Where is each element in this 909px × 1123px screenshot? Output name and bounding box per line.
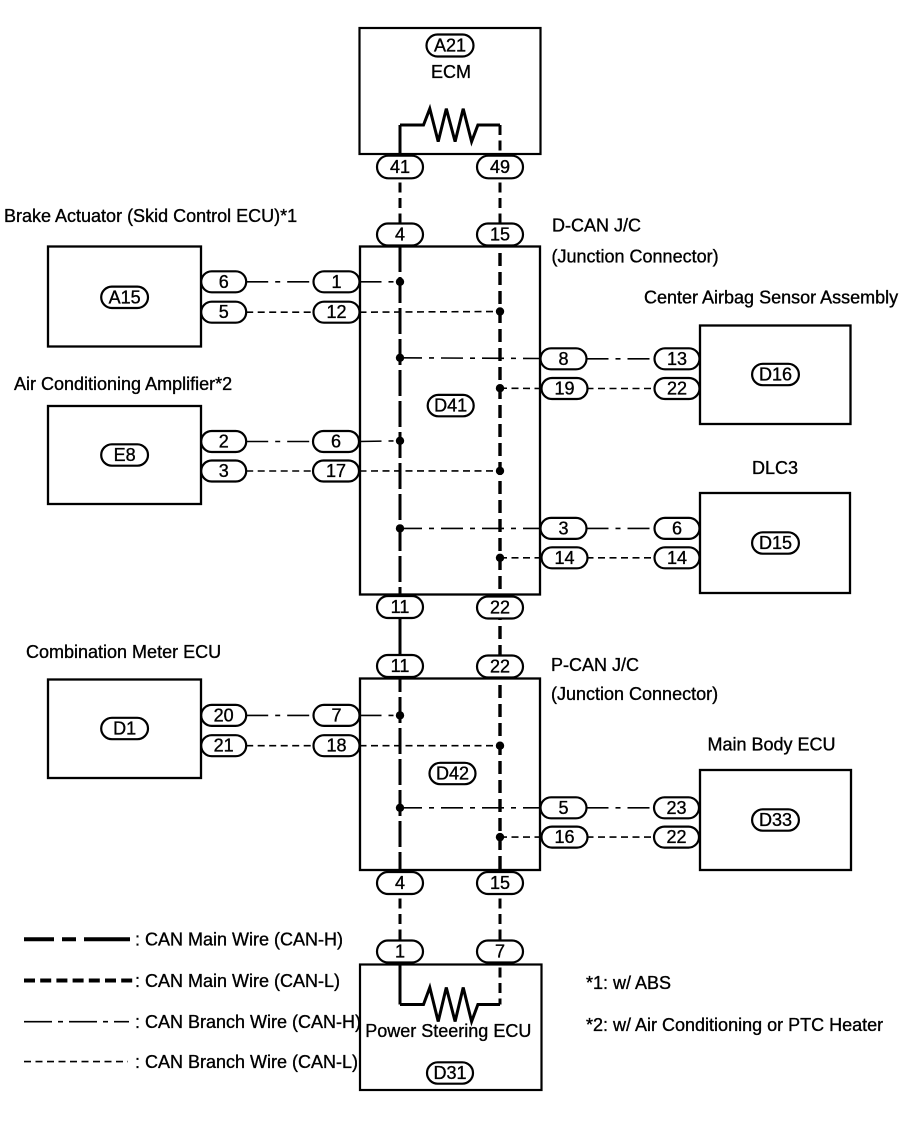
legend CAN Main Wire CAN-H sample line (24, 937, 130, 941)
wire branch CAN-H D41 pin3 to DLC3 pin6 (587, 527, 655, 529)
Center Airbag Sensor D16 box (700, 326, 851, 425)
svg-text:6: 6 (331, 432, 341, 452)
wire CAN-H main vertical D42 segment (399, 666, 402, 883)
wire PS ECU pin7 leg CAN-L (499, 952, 502, 1005)
wire branch CAN-L D42 pin18 to main line (360, 745, 501, 747)
node junction CAN-H at D41 pin8 row (396, 354, 404, 362)
wire CAN-H main vertical D41 segment (399, 246, 402, 607)
wire branch CAN-L main line to D41 pin14 (500, 557, 542, 559)
pin 4 D42 bottom (377, 872, 423, 894)
svg-text:ECM: ECM (431, 62, 471, 82)
svg-text:Power Steering ECU: Power Steering ECU (365, 1021, 531, 1041)
svg-text:DLC3: DLC3 (752, 458, 798, 478)
pin 5 A15 (201, 302, 246, 323)
connector D33 oval (752, 809, 799, 830)
svg-text:Air Conditioning Amplifier*2: Air Conditioning Amplifier*2 (14, 374, 232, 394)
svg-text:2: 2 (219, 432, 229, 452)
svg-text:A15: A15 (109, 287, 141, 307)
wire branch CAN-H D41 pin6 to main line (360, 440, 401, 443)
resistor in ECM (terminating resistor) (400, 109, 500, 142)
resistor in Power Steering ECU (terminating resistor) (400, 988, 500, 1022)
svg-text:*2: w/ Air Conditioning or PTC: *2: w/ Air Conditioning or PTC Heater (586, 1015, 883, 1035)
P-CAN junction connector D42 box (360, 679, 540, 871)
svg-text:18: 18 (326, 736, 346, 756)
connector D41 oval (428, 395, 474, 416)
connector D16 oval (752, 364, 799, 385)
pin 6 D41 left lower (313, 431, 359, 452)
D-CAN junction connector D41 box (360, 247, 540, 595)
node junction CAN-H at D41 pin6 row (396, 437, 404, 445)
node junction CAN-H at D41 pin3 row (396, 524, 404, 532)
pin 5 D42 right (541, 797, 587, 818)
wire branch CAN-H D41 pin1 to main line (360, 281, 401, 283)
wire branch CAN-H main line to D42 pin5 (400, 807, 541, 809)
svg-text:D31: D31 (433, 1063, 466, 1083)
pin 41 ECM (377, 156, 423, 179)
pin 20 D1 (201, 705, 246, 726)
svg-text:13: 13 (667, 349, 687, 369)
node junction CAN-H at D42 pin7 row (396, 711, 404, 719)
svg-text:D41: D41 (434, 396, 467, 416)
wire branch CAN-L main line to D42 pin16 (500, 836, 542, 838)
pin 22 D16 (655, 378, 700, 399)
pin 19 D41 right (542, 378, 588, 399)
svg-text:*1: w/ ABS: *1: w/ ABS (586, 973, 671, 993)
svg-text:41: 41 (390, 157, 410, 177)
wire branch CAN-H D42 pin7 to main line (360, 714, 401, 716)
svg-text:D16: D16 (759, 365, 792, 385)
pin 16 D42 right (542, 827, 588, 848)
wire branch CAN-H D1 pin20 to D42 pin7 (246, 714, 313, 716)
wire branch CAN-H main line to D41 pin3 (400, 527, 541, 529)
svg-text:23: 23 (666, 798, 686, 818)
pin 7 D42 left (314, 705, 360, 726)
svg-text:: CAN Main Wire (CAN-H): : CAN Main Wire (CAN-H) (135, 930, 343, 950)
svg-text:Brake Actuator (Skid Control E: Brake Actuator (Skid Control ECU)*1 (4, 206, 297, 226)
svg-text:E8: E8 (114, 445, 136, 465)
svg-text:15: 15 (490, 225, 510, 245)
wire CAN-L main vertical D42 segment (498, 666, 501, 883)
node junction CAN-L at D41 pin17 row (496, 467, 504, 475)
svg-text:21: 21 (214, 736, 234, 756)
svg-text:4: 4 (395, 225, 405, 245)
node junction CAN-H at D42 pin5 row (396, 804, 404, 812)
wire branch CAN-L D1 pin21 to D42 pin18 (246, 745, 313, 747)
wire D42 pin4 to PS ECU pin1 CAN-H (399, 883, 402, 952)
svg-text:(Junction Connector): (Junction Connector) (551, 684, 718, 704)
svg-text:11: 11 (391, 597, 410, 617)
svg-text:49: 49 (490, 157, 510, 177)
node junction CAN-L at D42 pin18 row (496, 742, 504, 750)
resistor in ECM left leg wire (399, 125, 402, 167)
svg-text:P-CAN J/C: P-CAN J/C (551, 655, 639, 675)
svg-text:D1: D1 (113, 719, 136, 739)
wire branch CAN-L D41 pin19 to D16 pin22 (587, 388, 655, 390)
pin 6 D15 (655, 518, 700, 539)
resistor in ECM right leg wire CAN-L (499, 125, 502, 167)
svg-text:22: 22 (666, 827, 686, 847)
svg-text:1: 1 (331, 272, 341, 292)
pin 14 D41 right lower (542, 547, 588, 568)
svg-text:5: 5 (219, 302, 229, 322)
svg-text:D33: D33 (759, 810, 792, 830)
node junction CAN-L at D42 pin16 row (496, 833, 504, 841)
svg-text:16: 16 (554, 827, 574, 847)
ECM box (360, 28, 541, 154)
svg-text:11: 11 (391, 656, 410, 676)
pin 7 Power Steering ECU (477, 941, 523, 963)
svg-text:6: 6 (219, 272, 229, 292)
svg-text:15: 15 (490, 873, 510, 893)
connector E8 oval (101, 444, 148, 465)
svg-text:5: 5 (558, 798, 568, 818)
svg-text:D-CAN J/C: D-CAN J/C (552, 216, 641, 236)
wire branch CAN-L D41 pin14 to DLC3 pin14 (587, 557, 655, 559)
wire CAN-H main between J/C 11 to 11 (399, 607, 402, 666)
svg-text:3: 3 (558, 518, 568, 538)
wire ECM pin49 to D41 pin15 CAN-L (499, 167, 502, 235)
svg-text:12: 12 (326, 302, 346, 322)
svg-text:7: 7 (331, 705, 341, 725)
svg-text:8: 8 (558, 349, 568, 369)
node junction CAN-H at D41 pin1 row (396, 278, 404, 286)
Combination Meter D1 box (48, 680, 201, 779)
pin 14 D15 (655, 547, 700, 568)
pin 2 E8 (201, 431, 246, 452)
pin 22 D41 bottom (477, 597, 523, 619)
svg-text:17: 17 (326, 461, 346, 481)
svg-text:4: 4 (395, 873, 405, 893)
wire branch CAN-L D41 pin17 to main line (360, 470, 501, 472)
Brake Actuator A15 box (48, 247, 201, 347)
pin 8 D41 right (541, 348, 587, 369)
svg-text:14: 14 (554, 548, 574, 568)
legend CAN Branch Wire CAN-H sample line (24, 1021, 129, 1023)
wire ECM pin41 to D41 pin4 CAN-H (399, 167, 402, 235)
connector A15 oval (101, 287, 148, 308)
pin 11 D41 bottom (377, 596, 423, 618)
wire branch CAN-L E8 pin3 to D41 pin17 (246, 470, 313, 472)
Air Conditioning Amplifier E8 box (48, 406, 201, 504)
svg-text:3: 3 (219, 461, 229, 481)
legend CAN Main Wire CAN-L sample line (24, 979, 132, 983)
svg-text:22: 22 (490, 598, 510, 618)
pin 13 D16 (655, 348, 700, 369)
connector D42 oval (430, 763, 476, 784)
svg-text:D42: D42 (436, 764, 469, 784)
svg-text:: CAN Main Wire (CAN-L): : CAN Main Wire (CAN-L) (135, 971, 340, 991)
wire branch CAN-L D41 pin12 to main line (360, 311, 501, 314)
svg-text:7: 7 (495, 942, 505, 962)
pin 23 D33 (654, 797, 699, 818)
svg-text:22: 22 (490, 657, 510, 677)
wire CAN-L main between J/C 22 to 22 (498, 607, 501, 666)
wire branch CAN-H D42 pin5 to D33 pin23 (587, 807, 655, 809)
svg-text:(Junction Connector): (Junction Connector) (552, 247, 719, 267)
node junction CAN-L at D41 pin12 row (496, 307, 504, 315)
wire branch CAN-H D41 pin8 to D16 pin13 (587, 358, 655, 360)
connector D15 oval (752, 532, 799, 553)
pin 3 D41 right lower (541, 518, 587, 539)
legend CAN Branch Wire CAN-L sample line (24, 1061, 128, 1063)
connector D31 oval (427, 1062, 473, 1083)
svg-text:22: 22 (667, 379, 687, 399)
svg-text:Main Body ECU: Main Body ECU (708, 735, 836, 755)
connector D1 oval (101, 718, 148, 739)
svg-text:20: 20 (214, 705, 234, 725)
wire branch CAN-L A15 pin5 to D41 pin12 (246, 311, 313, 313)
wire D42 pin15 to PS ECU pin7 CAN-L (499, 883, 502, 952)
pin 3 E8 (201, 461, 246, 482)
wire branch CAN-L D42 pin16 to D33 pin22 (587, 836, 655, 838)
wire branch CAN-H E8 pin2 to D41 pin6 (246, 441, 313, 443)
Main Body ECU D33 box (700, 770, 851, 870)
pin 21 D1 (201, 735, 246, 756)
pin 12 D41 left (314, 302, 360, 323)
wire branch CAN-L main line to D41 pin19 (500, 387, 542, 389)
Power Steering ECU box (360, 965, 542, 1091)
wire CAN-L main vertical D41 segment (498, 234, 501, 607)
DLC3 D15 box (700, 493, 850, 593)
wire PS ECU pin1 leg (399, 952, 402, 1005)
pin 18 D42 left (314, 735, 360, 756)
node junction CAN-L at D41 pin19 row (496, 384, 504, 392)
svg-text:Center Airbag Sensor Assembly: Center Airbag Sensor Assembly (644, 288, 898, 308)
connector A21 oval (427, 35, 474, 57)
pin 6 A15 (201, 271, 246, 292)
pin 49 ECM (477, 156, 523, 179)
pin 22 D42 top (477, 656, 523, 678)
svg-text:Combination Meter ECU: Combination Meter ECU (26, 642, 221, 662)
svg-text:D15: D15 (759, 533, 792, 553)
svg-text:: CAN Branch Wire (CAN-H): : CAN Branch Wire (CAN-H) (135, 1012, 361, 1032)
pin 15 D42 bottom (477, 872, 523, 894)
pin 17 D41 left lower (313, 461, 359, 482)
pin 1 Power Steering ECU (377, 941, 423, 963)
wire branch CAN-H main line to D41 pin8 (400, 357, 541, 360)
pin 4 D41 top (377, 224, 423, 246)
pin 15 D41 top (477, 224, 523, 246)
svg-text:: CAN Branch Wire (CAN-L): : CAN Branch Wire (CAN-L) (135, 1052, 358, 1072)
svg-text:1: 1 (395, 942, 405, 962)
svg-text:19: 19 (554, 379, 574, 399)
pin 1 D41 left (314, 271, 360, 292)
wire branch CAN-H A15 pin6 to D41 pin1 (246, 281, 313, 283)
pin 22 D33 (654, 827, 699, 848)
node junction CAN-L at D41 pin14 row (496, 554, 504, 562)
svg-text:6: 6 (672, 518, 682, 538)
svg-text:A21: A21 (434, 36, 466, 56)
svg-text:14: 14 (667, 548, 687, 568)
pin 11 D42 top (377, 655, 423, 677)
